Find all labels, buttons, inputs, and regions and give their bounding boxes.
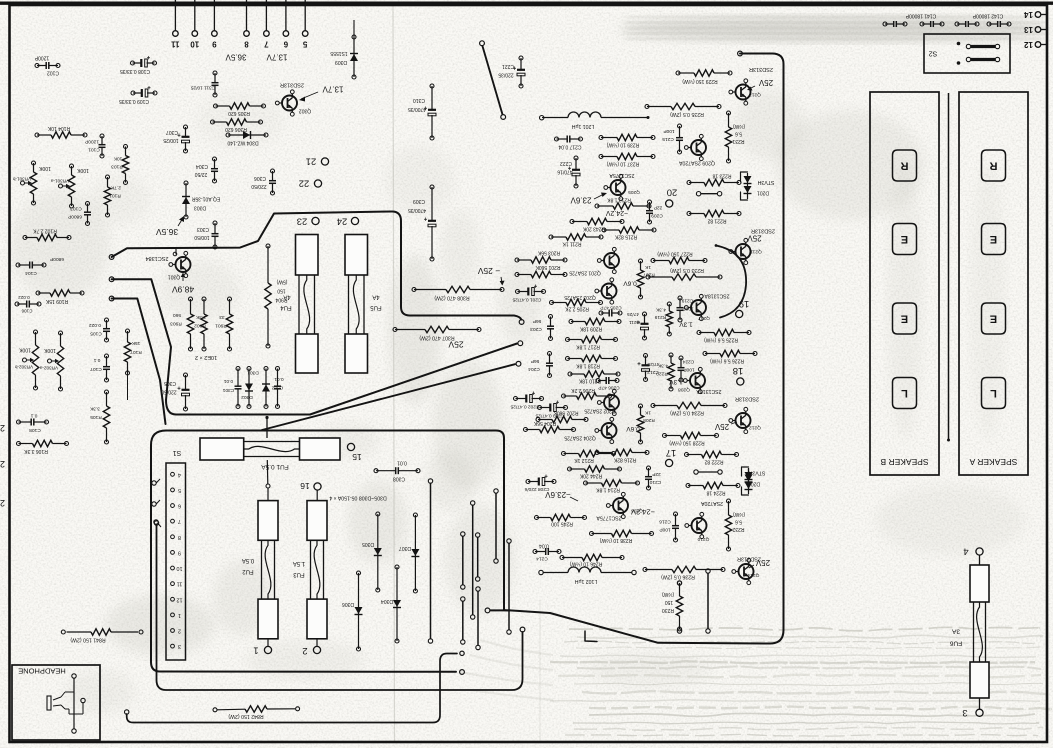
svg-text:Q213: Q213 xyxy=(749,92,761,98)
svg-text:6800P: 6800P xyxy=(68,214,82,220)
svg-text:2: 2 xyxy=(302,645,307,656)
svg-text:C222: C222 xyxy=(560,160,572,166)
svg-text:0.022: 0.022 xyxy=(18,295,30,300)
fuse FU2 0.5A xyxy=(242,484,278,639)
svg-text:12: 12 xyxy=(1024,40,1033,49)
svg-text:2SA720A: 2SA720A xyxy=(701,500,723,506)
resistor R225 5.6 (1/2W) xyxy=(697,329,751,343)
diode D301 xyxy=(245,367,259,409)
svg-text:L201 1μH: L201 1μH xyxy=(571,123,594,129)
terminal 16 xyxy=(300,481,321,501)
resistor R109 15K xyxy=(36,290,84,304)
svg-text:R306 620: R306 620 xyxy=(225,126,247,132)
resistor R233 0.5 (2W) xyxy=(646,267,722,280)
terminal 9 xyxy=(212,0,218,49)
resistor R106 3.3K xyxy=(17,440,69,454)
svg-text:6: 6 xyxy=(178,503,181,509)
svg-text:23: 23 xyxy=(297,216,308,227)
svg-text:D303: D303 xyxy=(194,205,206,211)
svg-text:R235 0.5 (2W): R235 0.5 (2W) xyxy=(670,111,704,117)
svg-text:100K: 100K xyxy=(77,167,89,173)
svg-text:VR302-a: VR302-a xyxy=(39,366,58,371)
terminal 21 xyxy=(306,156,329,167)
resistor R221 82 xyxy=(687,210,741,223)
svg-text:2SC1775A: 2SC1775A xyxy=(609,172,635,178)
svg-text:R209 18K: R209 18K xyxy=(579,326,602,332)
capacitor C303 100/50 xyxy=(194,221,218,249)
terminal 19 xyxy=(736,298,750,318)
svg-text:36.5V: 36.5V xyxy=(156,227,179,237)
svg-text:1S1555: 1S1555 xyxy=(330,50,347,56)
resistor R306 620 xyxy=(211,119,263,132)
capacitor C206 47P xyxy=(596,377,620,391)
capacitor C209 22P xyxy=(646,200,663,224)
svg-text:2SC1318A: 2SC1318A xyxy=(696,388,722,394)
svg-text:100/25: 100/25 xyxy=(163,137,179,143)
svg-text:10E2 × 2: 10E2 × 2 xyxy=(195,354,217,360)
svg-text:6: 6 xyxy=(283,40,288,49)
fuse FU6 3A xyxy=(949,546,989,719)
svg-text:D304 WZ-140: D304 WZ-140 xyxy=(227,140,258,146)
svg-text:C214: C214 xyxy=(536,556,548,562)
resistor R215 82K xyxy=(602,227,656,240)
svg-text:R842 150 (2W): R842 150 (2W) xyxy=(228,713,263,719)
svg-text:R106 3.3K: R106 3.3K xyxy=(24,448,48,454)
svg-text:R202 560K: R202 560K xyxy=(553,410,579,416)
svg-text:100K: 100K xyxy=(44,347,56,353)
wire bus W2 lower-left xyxy=(109,277,522,415)
svg-text:0.022: 0.022 xyxy=(89,322,101,328)
svg-text:D306: D306 xyxy=(342,601,354,607)
svg-text:2SC1384: 2SC1384 xyxy=(146,255,169,261)
capacitor C210 22P xyxy=(645,466,661,490)
resistor R901 33 xyxy=(215,297,233,351)
inductor L102 1uH xyxy=(539,567,636,584)
svg-text:1.5A: 1.5A xyxy=(293,560,305,566)
voltage label -24.2V top xyxy=(605,209,628,216)
resistor R229 150 (1/2W) xyxy=(676,70,732,85)
svg-text:R205 2.2K: R205 2.2K xyxy=(565,306,589,312)
svg-text:1: 1 xyxy=(178,612,181,618)
vertical wire R230 side stub xyxy=(706,569,710,633)
svg-text:R104 10K: R104 10K xyxy=(47,125,70,131)
svg-text:C301: C301 xyxy=(222,387,234,393)
svg-text:S2: S2 xyxy=(929,50,938,57)
svg-text:L: L xyxy=(990,387,997,399)
resistor R230 150 (1/2W) xyxy=(662,581,683,633)
resistor R224 18 xyxy=(686,482,740,495)
svg-text:220/50: 220/50 xyxy=(251,183,267,189)
svg-text:R105: R105 xyxy=(90,414,102,420)
wire 25V diagonal 2 xyxy=(262,361,521,430)
potentiometer VR302-a xyxy=(39,331,63,391)
svg-text:10: 10 xyxy=(190,40,199,49)
vertical wire stubs xyxy=(428,479,511,650)
wire top diagonal xyxy=(480,41,506,120)
svg-text:C310: C310 xyxy=(413,97,425,103)
svg-text:+: + xyxy=(423,215,427,221)
diode D202 STV3H xyxy=(742,467,766,495)
svg-text:Q202 2SA725: Q202 2SA725 xyxy=(584,408,616,414)
svg-text:10: 10 xyxy=(176,565,182,571)
svg-text:L102 1μH: L102 1μH xyxy=(574,578,597,584)
transistor Q212 2SD313R xyxy=(714,396,761,434)
resistor R206 2.2K xyxy=(562,387,612,399)
svg-text:+: + xyxy=(544,472,548,478)
capacitor C202 0.47/25 xyxy=(510,389,543,410)
svg-text:− 25V: − 25V xyxy=(477,266,500,276)
wire bus W1 upper xyxy=(109,212,524,325)
svg-text:C215: C215 xyxy=(662,136,674,142)
capacitor C104 6800P xyxy=(16,256,64,276)
svg-text:2SC1775A: 2SC1775A xyxy=(596,515,622,521)
svg-text:48.9V: 48.9V xyxy=(172,285,195,295)
resistor R226 5.6 (1/2W) xyxy=(703,350,757,364)
svg-text:Q203 2SA725: Q203 2SA725 xyxy=(564,294,596,300)
svg-text:36.5V: 36.5V xyxy=(225,53,247,62)
svg-text:C217 0.04: C217 0.04 xyxy=(558,144,581,150)
capacitor C102 1200P xyxy=(34,55,60,76)
svg-text:8: 8 xyxy=(178,534,181,540)
resistor R903 560 xyxy=(170,297,194,351)
svg-text:4A: 4A xyxy=(372,294,379,300)
transistor Q211 2SD313R xyxy=(729,228,775,265)
transistor Q302 2SD313R xyxy=(275,82,343,117)
svg-text:0.1: 0.1 xyxy=(30,413,37,419)
svg-text:0.01: 0.01 xyxy=(274,376,284,382)
resistor R237 10 (1/2W) xyxy=(599,153,655,167)
terminal 7 xyxy=(264,0,270,49)
diode D306 xyxy=(342,571,363,651)
svg-text:1: 1 xyxy=(253,645,258,656)
svg-text:5.6: 5.6 xyxy=(735,131,742,137)
svg-text:2: 2 xyxy=(0,423,5,433)
svg-text:2: 2 xyxy=(0,498,5,508)
svg-text:2.7K: 2.7K xyxy=(110,185,121,191)
resistor R105 3.3K xyxy=(89,390,109,444)
svg-text:22P: 22P xyxy=(652,471,661,477)
capacitor C212 47/25 xyxy=(637,354,660,382)
svg-text:220/35: 220/35 xyxy=(498,72,514,78)
resistor R212 1K xyxy=(562,450,616,463)
svg-text:C107: C107 xyxy=(90,366,102,372)
svg-text:C224: C224 xyxy=(682,359,694,365)
svg-text:+: + xyxy=(147,84,151,90)
svg-text:4.3K: 4.3K xyxy=(657,363,668,369)
svg-text:C308: C308 xyxy=(393,476,405,482)
svg-text:S1: S1 xyxy=(173,449,182,456)
svg-text:2SD313R: 2SD313R xyxy=(280,82,304,88)
capacitor C308 0.01 xyxy=(374,460,420,482)
terminal 20 xyxy=(666,187,678,208)
svg-text:R225 5.6 (½W): R225 5.6 (½W) xyxy=(704,337,738,344)
terminal 14 xyxy=(1024,10,1047,19)
svg-text:R228 150 (½W): R228 150 (½W) xyxy=(669,440,705,447)
diode D304 xyxy=(381,565,401,643)
diode D305 xyxy=(362,512,382,592)
svg-text:C106: C106 xyxy=(21,309,32,314)
svg-text:13: 13 xyxy=(1024,25,1033,34)
svg-text:7: 7 xyxy=(264,40,269,49)
svg-text:VR301-b: VR301-b xyxy=(12,177,31,182)
capacitor C105 0.022 xyxy=(89,318,110,342)
svg-text:C202 0.47/25: C202 0.47/25 xyxy=(510,404,539,410)
svg-text:0.6V: 0.6V xyxy=(626,425,640,432)
resistor R228 150 (1/2W) xyxy=(663,432,719,446)
terminal 22 xyxy=(299,178,322,189)
svg-text:13.7V: 13.7V xyxy=(266,53,288,62)
svg-text:C219: C219 xyxy=(681,298,693,304)
capacitor C107 0.1 xyxy=(90,354,110,382)
svg-text:7: 7 xyxy=(178,518,181,524)
resistor R305 620 xyxy=(214,103,266,116)
svg-text:6800P: 6800P xyxy=(50,256,64,262)
resistor R217 1.8K xyxy=(566,336,618,349)
svg-text:L: L xyxy=(901,387,908,399)
svg-text:Q205: Q205 xyxy=(628,189,640,195)
svg-text:E: E xyxy=(901,233,908,245)
svg-text:C109 0.33/35: C109 0.33/35 xyxy=(119,98,149,104)
svg-text:0.1: 0.1 xyxy=(93,357,100,363)
svg-text:25V: 25V xyxy=(758,78,773,87)
resistor R235 0.5 (2W) xyxy=(645,103,721,117)
svg-text:C304: C304 xyxy=(196,163,208,169)
svg-text:R227 150 (½W): R227 150 (½W) xyxy=(657,251,693,258)
svg-text:20: 20 xyxy=(667,187,678,198)
svg-text:3: 3 xyxy=(178,643,181,649)
svg-text:R238 10 (½W): R238 10 (½W) xyxy=(599,537,632,544)
terminal 18 xyxy=(733,365,744,385)
capacitor C101 1200P xyxy=(85,134,105,158)
svg-text:R: R xyxy=(900,160,908,172)
svg-text:C206 47P: C206 47P xyxy=(598,385,619,391)
svg-text:5: 5 xyxy=(178,487,181,493)
svg-text:R234 0.5 (2W): R234 0.5 (2W) xyxy=(670,410,704,416)
wire stub 17 xyxy=(694,470,722,474)
resistor R201 560K xyxy=(515,264,567,278)
svg-text:47/25: 47/25 xyxy=(647,361,659,367)
capacitor C217 0.04 xyxy=(555,136,583,150)
transistor Q209 2SA720A xyxy=(678,134,715,165)
resistor R205 2.2K xyxy=(550,299,603,311)
svg-text:C303: C303 xyxy=(197,226,209,232)
svg-text:47/25: 47/25 xyxy=(627,311,639,317)
svg-text:Q302: Q302 xyxy=(299,108,311,114)
svg-text:R308 470 (2W): R308 470 (2W) xyxy=(434,295,469,301)
svg-text:R232: R232 xyxy=(732,526,744,532)
svg-text:+: + xyxy=(637,360,641,366)
svg-text:C302: C302 xyxy=(271,385,283,391)
svg-text:5.6: 5.6 xyxy=(735,519,742,525)
resistor R208 1K xyxy=(637,404,654,444)
resistor R307 470 (2W) xyxy=(393,326,481,340)
svg-text:FU4: FU4 xyxy=(280,304,292,310)
svg-text:3: 3 xyxy=(962,707,967,718)
fuse FU3 1.5A xyxy=(293,501,327,639)
capacitor C141 xyxy=(883,13,944,28)
svg-text:−24.2V: −24.2V xyxy=(631,508,655,517)
svg-text:Q207: Q207 xyxy=(698,315,710,321)
svg-text:D309: D309 xyxy=(335,59,347,65)
svg-text:C221: C221 xyxy=(502,63,514,69)
svg-text:HEADPHONE: HEADPHONE xyxy=(18,667,66,676)
svg-text:25V: 25V xyxy=(747,234,762,243)
transistor Q208 2SC1318A xyxy=(669,367,722,394)
diode D307 xyxy=(399,513,420,593)
resistor R231 5.6 (1/2W) xyxy=(725,111,745,163)
fuse FU1 0.5A xyxy=(200,416,340,484)
speaker A terminal block xyxy=(959,92,1028,475)
svg-text:STV3H: STV3H xyxy=(748,470,765,476)
svg-text:100K: 100K xyxy=(19,347,31,353)
svg-text:19: 19 xyxy=(739,298,750,309)
svg-text:Q211: Q211 xyxy=(750,249,762,255)
edge glyph 2a xyxy=(0,423,5,433)
svg-text:D305: D305 xyxy=(362,541,374,547)
capacitor C311 10/25 xyxy=(190,71,218,97)
resistor R213 1.8K xyxy=(595,197,651,210)
svg-text:13.7V: 13.7V xyxy=(322,85,344,94)
svg-text:100K: 100K xyxy=(39,165,51,171)
svg-text:2SD313R: 2SD313R xyxy=(751,228,775,234)
capacitor C304 22/50 xyxy=(195,157,218,183)
svg-text:R102 2.7K: R102 2.7K xyxy=(33,228,57,234)
capacitor C109 0.33/35 xyxy=(119,84,157,105)
svg-text:R229 150 (½W): R229 150 (½W) xyxy=(682,78,718,85)
svg-text:22/50: 22/50 xyxy=(195,171,208,177)
voltage label 0.6V bottom xyxy=(626,425,640,432)
svg-text:R217 1.8K: R217 1.8K xyxy=(576,344,600,350)
transistor Q202 2SA725 xyxy=(584,389,619,415)
diode D309 1S1555 xyxy=(330,20,358,79)
svg-text:R107: R107 xyxy=(130,349,142,355)
transistor Q205 2SC1775A xyxy=(604,172,640,201)
svg-text:C309: C309 xyxy=(413,198,425,204)
transistor Q207 2SC1318A xyxy=(679,293,730,328)
svg-text:R245 100: R245 100 xyxy=(551,521,573,527)
label 10E2x2 xyxy=(195,354,217,360)
capacitor C108 0.33/35 xyxy=(120,54,157,75)
svg-text:Q301: Q301 xyxy=(168,274,180,280)
svg-text:0.01: 0.01 xyxy=(224,378,234,384)
capacitor C108b 0.1 xyxy=(17,413,49,434)
svg-text:4: 4 xyxy=(178,471,181,477)
capacitor C306 220/50 xyxy=(251,169,276,195)
svg-text:4A: 4A xyxy=(283,294,290,300)
capacitor C224 100P xyxy=(678,356,695,382)
resistor R904 150 (5W) xyxy=(265,244,288,348)
capacitor C307 100/25 xyxy=(163,125,189,153)
svg-text:R233 0.5 (2W): R233 0.5 (2W) xyxy=(670,267,704,273)
svg-text:56P: 56P xyxy=(533,318,542,324)
svg-text:C204: C204 xyxy=(528,366,540,372)
svg-text:FU2: FU2 xyxy=(242,568,254,574)
voltage label 23.6V top xyxy=(570,193,607,205)
resistor R220 4.3K xyxy=(656,353,674,391)
svg-text:R201 560K: R201 560K xyxy=(535,264,561,270)
terminal 13 xyxy=(1024,25,1047,34)
svg-text:C311 10/25: C311 10/25 xyxy=(190,85,215,91)
svg-text:+: + xyxy=(555,398,559,404)
voltage label 0.6V top xyxy=(623,280,637,287)
svg-text:2SC1318A: 2SC1318A xyxy=(704,293,730,299)
capacitor C302 0.01 xyxy=(271,367,283,409)
resistor R245 100 xyxy=(535,514,587,526)
voltage label 23.6V bottom xyxy=(545,490,578,501)
svg-text:FU5: FU5 xyxy=(370,304,382,310)
resistor R207 1K xyxy=(637,259,654,299)
svg-text:150: 150 xyxy=(277,288,286,294)
svg-text:SPEAKER A: SPEAKER A xyxy=(969,457,1017,467)
svg-text:100P: 100P xyxy=(659,527,670,533)
svg-text:R222 82: R222 82 xyxy=(704,459,723,465)
svg-text:R305 620: R305 620 xyxy=(228,110,250,116)
svg-text:D201: D201 xyxy=(757,190,769,196)
svg-text:Q204 2SA725: Q204 2SA725 xyxy=(564,435,596,441)
svg-text:R213 1.8K: R213 1.8K xyxy=(607,197,631,203)
svg-text:C101: C101 xyxy=(88,147,100,153)
svg-text:C141 18000P: C141 18000P xyxy=(905,13,936,19)
svg-text:3.3K: 3.3K xyxy=(89,406,100,412)
diode D304 WZ-140 xyxy=(226,131,268,146)
resistor R234 0.5 (2W) xyxy=(651,402,727,415)
svg-text:2: 2 xyxy=(0,459,5,469)
svg-text:33: 33 xyxy=(219,314,225,320)
svg-text:9: 9 xyxy=(212,40,217,49)
svg-text:C210: C210 xyxy=(649,479,661,485)
terminal 24 xyxy=(337,216,359,227)
capacitor C103 6800P xyxy=(68,202,91,226)
svg-text:2SD313R: 2SD313R xyxy=(735,396,759,402)
svg-text:R206 2.2K: R206 2.2K xyxy=(571,387,595,393)
terminal 17 xyxy=(666,447,677,467)
svg-text:Q212: Q212 xyxy=(749,425,761,431)
capacitor C305 220/50 xyxy=(161,373,189,411)
diode D201 STV3H xyxy=(741,172,775,200)
svg-text:C102: C102 xyxy=(47,70,59,76)
capacitor C219 100P xyxy=(677,296,694,322)
svg-text:C108 0.33/35: C108 0.33/35 xyxy=(120,68,150,74)
svg-text:R224 18: R224 18 xyxy=(706,490,725,496)
svg-text:R239 10 (½W): R239 10 (½W) xyxy=(606,142,639,149)
resistor R243 20K xyxy=(570,218,624,231)
svg-text:220/50: 220/50 xyxy=(161,389,177,395)
svg-text:C209: C209 xyxy=(651,213,663,219)
resistor R103 10K xyxy=(111,145,129,185)
voltage label 13.7V top xyxy=(266,53,288,62)
resistor R209 18K xyxy=(569,318,621,331)
svg-text:C307: C307 xyxy=(166,129,178,135)
connector S1 xyxy=(166,449,186,660)
svg-text:FU3: FU3 xyxy=(293,571,305,577)
svg-text:(5W): (5W) xyxy=(276,279,287,285)
svg-text:D301: D301 xyxy=(247,370,259,376)
svg-text:+: + xyxy=(533,282,537,288)
svg-text:R901: R901 xyxy=(215,323,227,329)
resistor R246 10 (1/2W) xyxy=(560,554,624,567)
svg-text:R219: R219 xyxy=(654,314,666,320)
resistor R104 10K xyxy=(35,125,87,138)
capacitor C201 0.47/25 xyxy=(512,282,545,303)
capacitor C216 100P xyxy=(659,512,679,542)
svg-text:E: E xyxy=(990,233,997,245)
resistor R222 82 xyxy=(685,451,739,464)
svg-text:Q208: Q208 xyxy=(678,387,690,393)
resistor R107 15K xyxy=(124,329,141,400)
svg-text:0.5A: 0.5A xyxy=(242,557,254,563)
terminal 2 xyxy=(302,639,320,656)
svg-text:560: 560 xyxy=(173,312,181,318)
